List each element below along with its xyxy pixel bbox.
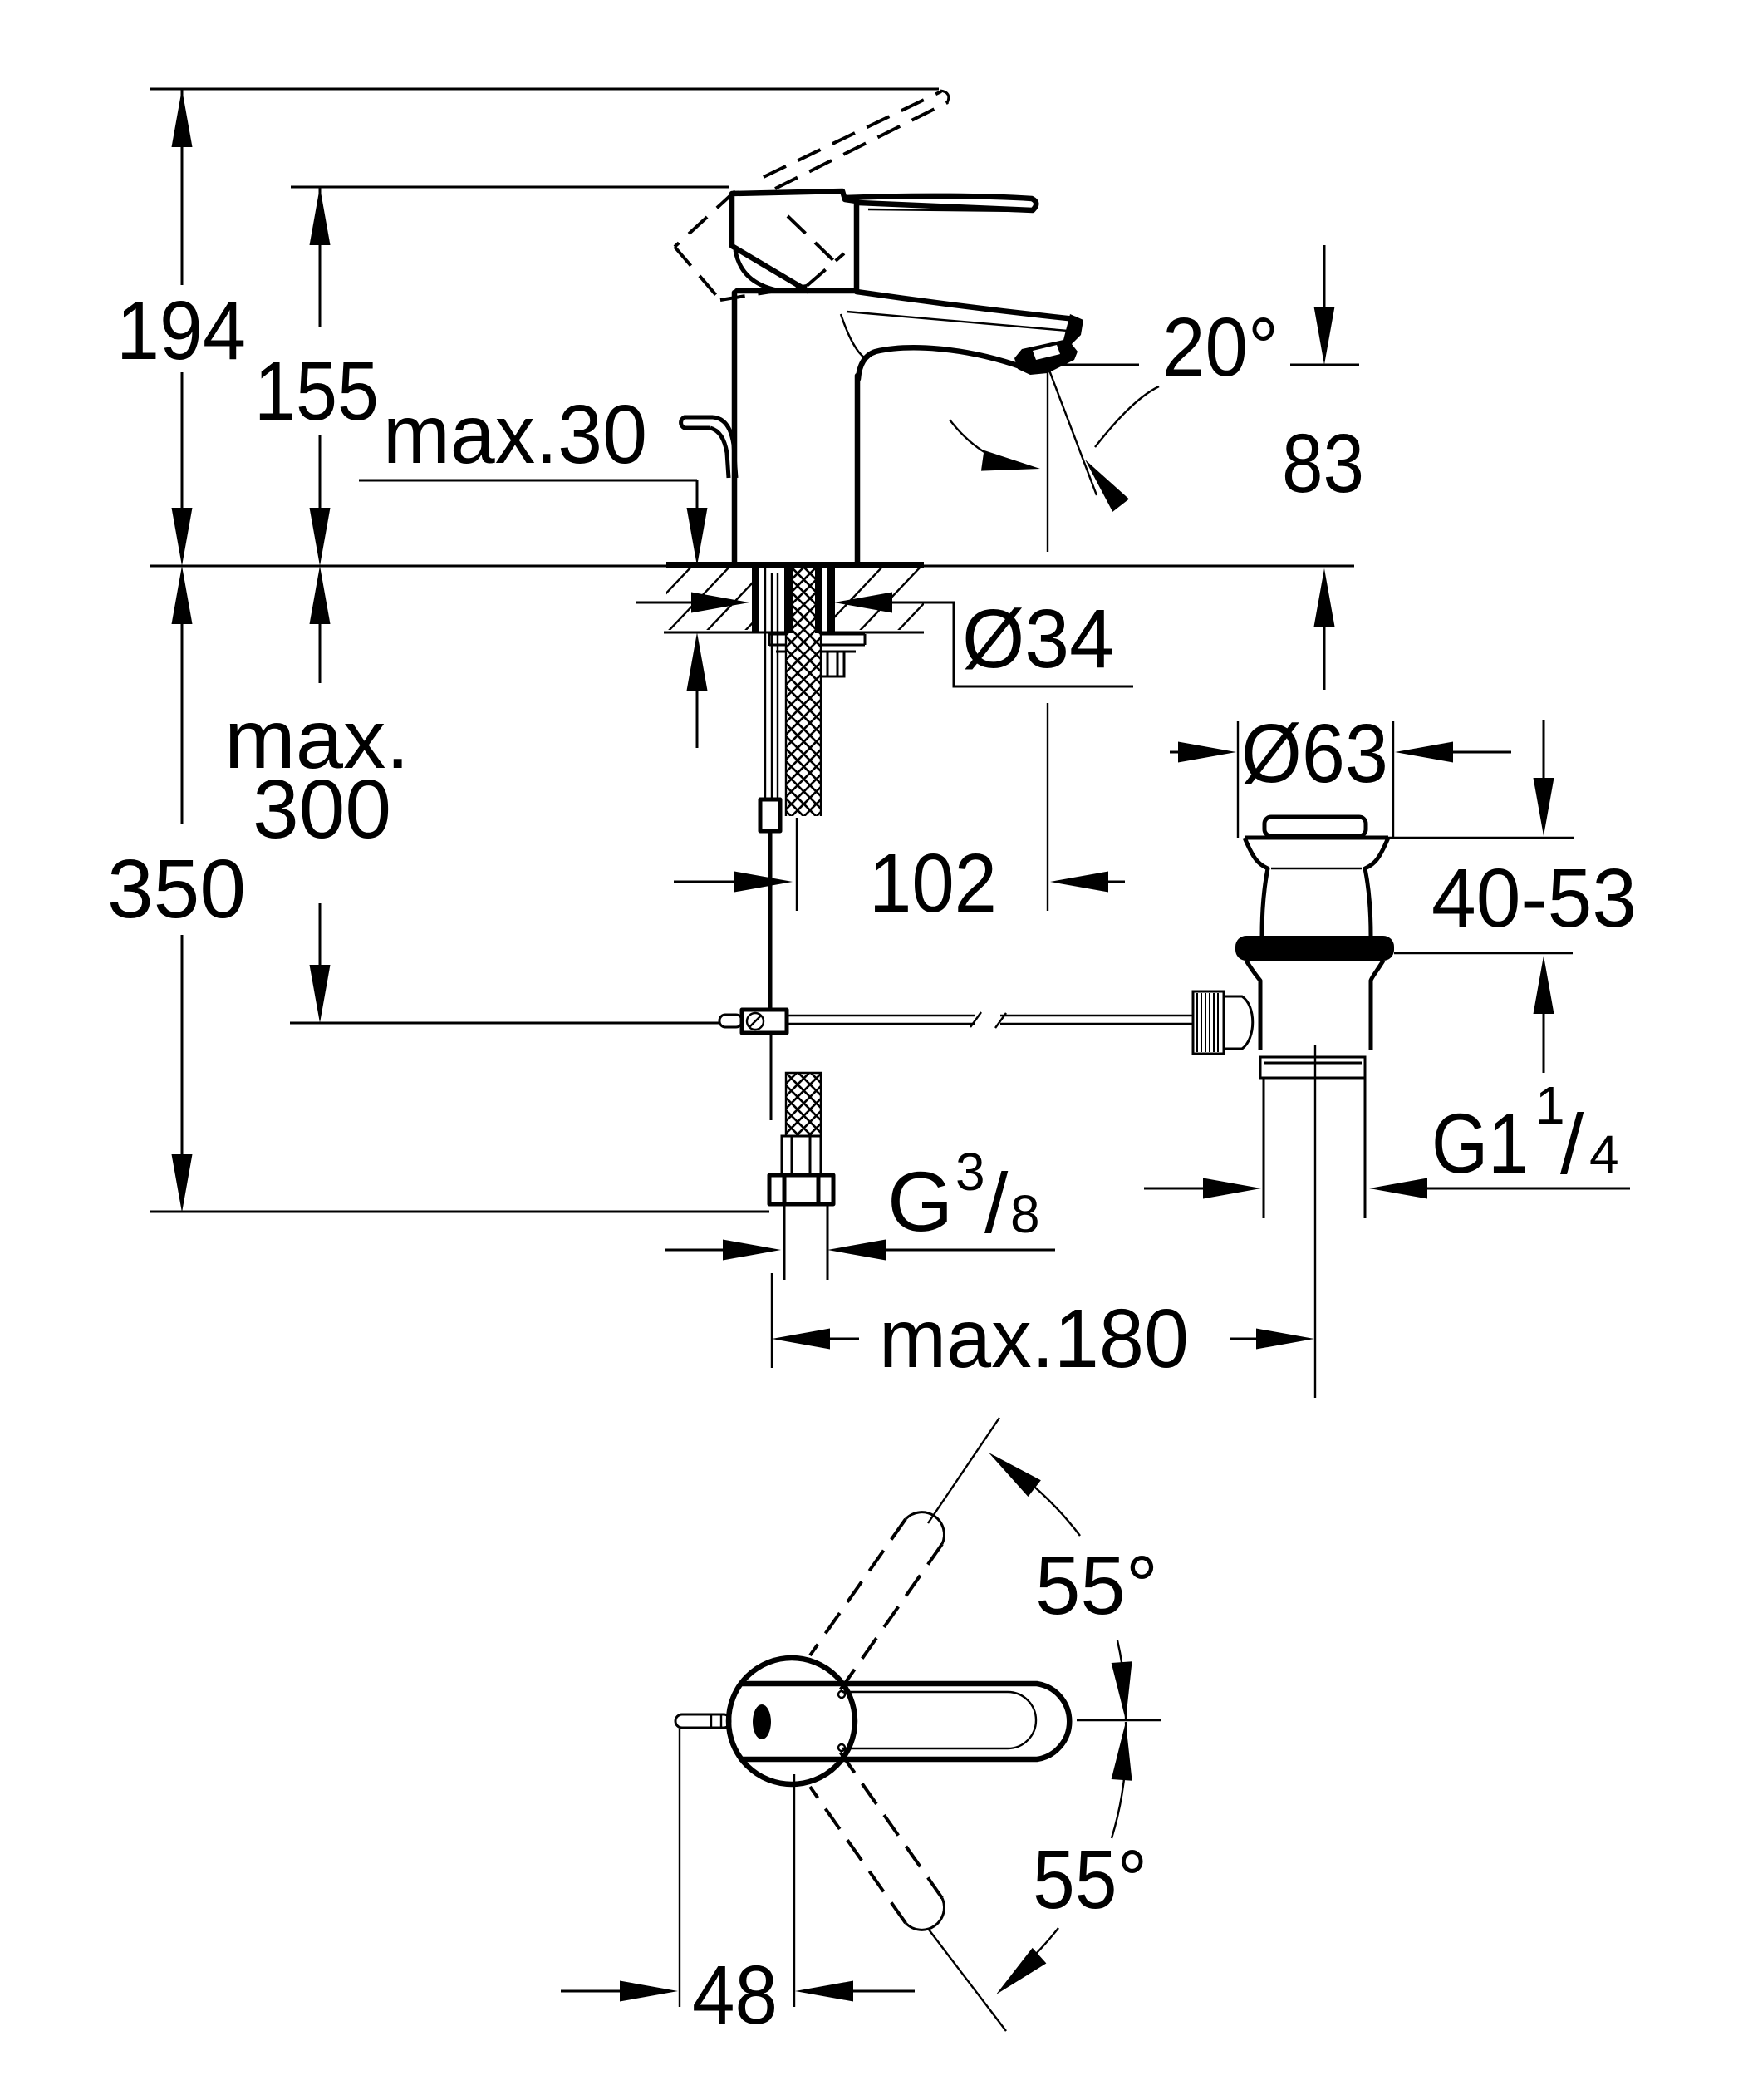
dimension 48 left arrow	[561, 1981, 678, 2002]
dashed raised lever tip	[940, 91, 949, 103]
mounting stud lines	[765, 568, 778, 799]
svg-text:Ø34: Ø34	[962, 593, 1114, 686]
dimension 83 down arrow	[1314, 245, 1335, 365]
handle down extension line	[929, 1930, 1006, 2031]
faucet handle pivot dome	[735, 250, 781, 291]
drain flange joint line	[1271, 868, 1362, 869]
dimension max.30 lower arrow	[687, 632, 708, 748]
svg-text:155: 155	[254, 345, 379, 438]
svg-text:G: G	[887, 1154, 953, 1249]
svg-text:300: 300	[253, 763, 391, 856]
angle 20 degree vertical reference from spout outlet	[1047, 368, 1048, 552]
svg-text:/: /	[984, 1156, 1009, 1251]
dimension max.30 leader line	[359, 480, 708, 566]
top view handle outer outline	[741, 1684, 1069, 1759]
dimension 194 extension line top	[150, 88, 939, 91]
drain gasket	[1235, 936, 1394, 961]
handle up extension line	[928, 1418, 999, 1523]
faucet lever inner line	[868, 209, 1026, 211]
dimension 350 bottom reference line	[150, 1211, 769, 1213]
mounting nut line	[776, 651, 856, 653]
dimension 155 line with arrows	[310, 187, 331, 566]
label G3/8	[887, 1142, 1040, 1251]
top view dashed handle up position	[810, 1519, 942, 1690]
svg-text:20°: 20°	[1162, 301, 1279, 394]
svg-text:83: 83	[1282, 417, 1364, 510]
dimension Ø34 right arrow and leader	[834, 593, 1133, 687]
drain knob ball housing	[1224, 996, 1253, 1049]
counter hatching	[628, 565, 960, 633]
dimension 83 up arrow at deck	[1314, 568, 1335, 690]
svg-text:48: 48	[692, 1949, 778, 2042]
svg-text:max.180: max.180	[879, 1292, 1189, 1385]
angle 20 leader curve with arrow	[1095, 386, 1159, 447]
svg-text:194: 194	[116, 284, 246, 377]
svg-text:Ø63: Ø63	[1241, 707, 1388, 800]
counter bottom line	[664, 632, 924, 634]
top view faucet body circle	[729, 1658, 855, 1784]
svg-text:102: 102	[869, 837, 997, 930]
dashed raised lever	[764, 91, 948, 189]
mounting lug	[821, 652, 844, 676]
svg-text:55°: 55°	[1035, 1539, 1158, 1632]
angle 20 arc with arrow	[950, 420, 1030, 468]
svg-text:350: 350	[107, 843, 246, 936]
drain thread ring	[1260, 1057, 1365, 1078]
svg-text:8: 8	[1010, 1184, 1040, 1244]
dimension 48 extension lines	[680, 1729, 794, 2007]
dimension max.180 left arrow	[772, 1273, 859, 1368]
top view dashed handle down position	[810, 1752, 942, 1923]
dashed handle up tip	[906, 1512, 944, 1544]
pop-up waste drain plug cap	[1264, 817, 1366, 836]
drain adjuster knurled knob	[1193, 991, 1224, 1054]
pull rod lower end	[770, 1033, 773, 1120]
spout aerator detail	[1014, 314, 1083, 375]
pull rod	[768, 831, 773, 1010]
supply hose upper braided section	[784, 568, 822, 816]
svg-text:max.30: max.30	[383, 388, 647, 481]
angle 20 degree horizontal line at outlet	[1051, 364, 1139, 366]
faucet handle base	[732, 191, 857, 291]
pull rod clamp joint	[742, 1010, 787, 1033]
drain flange sides	[1245, 838, 1268, 936]
faucet body outline	[734, 291, 857, 563]
top view pull rod stub	[675, 1714, 730, 1728]
dimension Ø63 arrows	[1170, 742, 1511, 763]
dimension max.180 right arrow	[1230, 1329, 1314, 1350]
svg-text:4: 4	[1589, 1124, 1619, 1184]
horizontal linkage rod left segment	[787, 1012, 981, 1027]
shank wall right below deck	[827, 568, 835, 633]
dashed raised handle base	[675, 191, 844, 300]
faucet spout	[857, 292, 1075, 379]
dimension Ø63 extension lines	[1238, 721, 1393, 838]
spout cheek line	[841, 314, 864, 357]
pop-up rod knob behind faucet	[681, 417, 736, 478]
dimension 40-53 down arrow	[1534, 720, 1554, 836]
svg-text:55°: 55°	[1033, 1833, 1147, 1926]
svg-text:40-53: 40-53	[1431, 852, 1637, 945]
deck counter top line	[150, 565, 1354, 568]
svg-text:G1: G1	[1431, 1096, 1529, 1191]
dimension 155 extension line	[291, 186, 729, 189]
dimension max.300 line with arrows	[310, 566, 331, 1023]
G3/8 thread pipe	[784, 1204, 827, 1280]
svg-text:3: 3	[955, 1142, 985, 1202]
faucet handle base diagonal cut	[732, 246, 808, 291]
dimension 40-53 up arrow	[1534, 956, 1554, 1073]
dimension 48 right arrow	[795, 1981, 915, 2002]
drain flange top	[1245, 836, 1388, 840]
dimension 102 left arrow	[674, 872, 793, 893]
top view cartridge hole	[753, 1704, 771, 1739]
dimension 194 line with arrows	[172, 89, 193, 566]
angle 55 lower arc	[1112, 1722, 1127, 1838]
dashed handle down tip	[906, 1898, 944, 1930]
dimension max.300 bottom reference line	[290, 1022, 719, 1025]
mounting washer	[769, 633, 865, 646]
top view handle dots	[838, 1691, 845, 1698]
horizontal linkage rod right segment	[995, 1013, 1193, 1028]
angle 55 upper arc	[994, 1457, 1080, 1536]
drain tailpipe	[1264, 1078, 1365, 1218]
spout chamfer line	[847, 312, 1078, 332]
dimension 40-53 top extension line	[1388, 837, 1574, 839]
supply hose lower braided section	[786, 1073, 821, 1136]
pull rod coupling cylinder	[760, 799, 780, 831]
top view handle center line	[1077, 1719, 1161, 1721]
drain body below gasket	[1246, 961, 1260, 1050]
dimension 350 line with arrows	[172, 566, 193, 1212]
dimension G1 1/4 arrows	[1144, 1178, 1630, 1199]
horizontal linkage rod left cap	[719, 1015, 742, 1027]
hose end fitting	[782, 1136, 821, 1175]
faucet base plate bar	[666, 562, 924, 568]
angle 20 degree label underline	[1290, 364, 1359, 366]
G3/8 connection nut	[769, 1175, 833, 1204]
dimension G3/8 arrows	[665, 1240, 1055, 1261]
top view handle inner outline	[842, 1692, 1036, 1748]
dimension Ø34 left arrow	[636, 593, 749, 613]
dimension 40-53 bottom extension line	[1394, 952, 1573, 954]
label G1 1/4	[1431, 1075, 1619, 1192]
shank wall left below deck	[752, 568, 759, 633]
faucet lever arm	[845, 196, 1036, 210]
dimension 102 right arrow	[1050, 872, 1125, 893]
angle 20 degree slant line	[1048, 368, 1097, 495]
dimension 102 extension lines	[796, 818, 798, 911]
svg-text:/: /	[1560, 1097, 1584, 1192]
drain center line	[1314, 1045, 1316, 1398]
